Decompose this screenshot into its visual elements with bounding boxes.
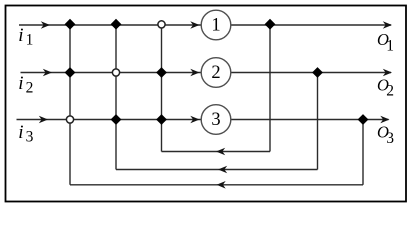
junction node: O1 tap (filled diamond) [265,19,276,30]
arrowhead: feedback 3 (left) [217,181,226,189]
svg-text:3: 3 [211,110,220,130]
wire: input i1 horizontal [19,24,201,26]
arrowhead: input i2 [43,69,52,77]
junction node: O2 tap (filled diamond) [312,67,323,78]
unit 2 (summing circle) [201,58,231,88]
unit 3 (summing circle) [201,105,231,135]
svg-text:3: 3 [26,128,34,145]
arrowhead: output O1 [383,21,392,29]
svg-text:3: 3 [386,130,394,147]
wire: output O1 horizontal [231,24,391,26]
wire: vertical drop from O3 node (x=363) [362,120,364,185]
label: input i1 [18,25,33,48]
junction node: i2-busA (filled diamond) [65,67,76,78]
wire: input i2 horizontal [21,72,202,74]
svg-text:1: 1 [211,16,220,36]
arrowhead: output O2 [383,69,392,77]
arrowhead: into unit 3 [190,116,199,124]
arrowhead: output O3 [380,116,389,124]
svg-text:2: 2 [26,79,34,96]
wire: output O2 horizontal [231,72,391,74]
wire: vertical drop from O2 node (x=317.5) [317,73,319,170]
label: output O3 [377,123,394,148]
label: output O2 [377,76,394,100]
label: output O1 [377,30,394,54]
wire: vertical bus B (x=116) [115,25,117,170]
wire: feedback line 2 (y=169.5) [116,169,318,171]
wire: output O3 horizontal [231,119,389,121]
svg-text:i: i [18,73,23,94]
arrowhead: input i3 [39,116,48,124]
node: i1-busC (open circle) [158,21,165,28]
arrowhead: into unit 1 [190,21,199,29]
svg-text:2: 2 [211,63,220,83]
svg-text:1: 1 [386,37,394,54]
svg-text:2: 2 [386,83,394,100]
wire: feedback line 1 (y=151.5) [162,151,271,153]
arrowhead: into unit 2 [190,69,199,77]
wire: vertical bus A (x=70) [69,25,71,185]
svg-text:i: i [18,122,23,143]
junction node: i1-busB (filled diamond) [111,19,122,30]
wire: feedback line 3 (y=184.5) [70,184,363,186]
node: i2-busB (open circle) [112,69,119,76]
junction node: i1-busA (filled diamond) [65,19,76,30]
wire: input i3 horizontal [17,119,202,121]
unit 1 (summing circle) [201,10,231,40]
arrowhead: feedback 1 (left) [216,148,225,156]
arrowhead: feedback 2 (left) [218,166,227,174]
arrowhead: input i1 [41,21,50,29]
svg-text:i: i [18,25,23,46]
wire: vertical bus C (x=161.5) [161,25,163,152]
junction node: i3-busB (filled diamond) [111,114,122,125]
label: input i2 [18,73,33,96]
wire: vertical drop from O1 node (x=270) [269,25,271,152]
svg-text:1: 1 [26,31,34,48]
junction node: O3 tap (filled diamond) [358,114,369,125]
junction node: i3-busC (filled diamond) [156,114,167,125]
junction node: i2-busC (filled diamond) [156,67,167,78]
node: i3-busA (open circle) [66,116,73,123]
label: input i3 [18,122,33,146]
